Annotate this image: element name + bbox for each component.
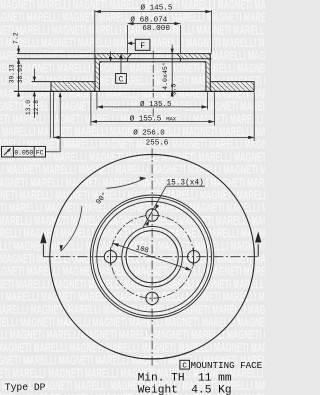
- svg-text:Ø 135.5: Ø 135.5: [140, 100, 172, 109]
- svg-text:39.13: 39.13: [8, 64, 15, 83]
- svg-text:Ø 145.5: Ø 145.5: [141, 3, 173, 12]
- svg-text:0.050: 0.050: [14, 149, 33, 156]
- svg-text:38.93: 38.93: [17, 64, 24, 83]
- svg-text:Ø 68.074: Ø 68.074: [130, 16, 167, 25]
- svg-text:12.8: 12.8: [33, 100, 40, 115]
- svg-text:C: C: [119, 76, 124, 85]
- svg-text:13.0: 13.0: [25, 100, 32, 115]
- svg-text:255.6: 255.6: [146, 140, 169, 148]
- svg-text:68.000: 68.000: [142, 25, 170, 33]
- svg-text:MAX: MAX: [166, 115, 177, 122]
- svg-text:Ø 256.0: Ø 256.0: [133, 129, 165, 138]
- svg-text:FC: FC: [36, 150, 44, 157]
- svg-text:3.5: 3.5: [171, 84, 178, 96]
- svg-text:7.2: 7.2: [13, 32, 20, 44]
- svg-text:Min. TH 11 mm: Min. TH 11 mm: [138, 373, 232, 385]
- svg-text:F: F: [140, 42, 145, 51]
- svg-text:MOUNTING FACE: MOUNTING FACE: [191, 360, 263, 371]
- svg-text:Weight 4.5 Kg: Weight 4.5 Kg: [138, 384, 232, 395]
- svg-text:C: C: [182, 363, 187, 371]
- svg-text:Ø 155.5: Ø 155.5: [130, 115, 162, 124]
- svg-text:4.0x45°: 4.0x45°: [161, 62, 169, 90]
- svg-text:Type DP: Type DP: [5, 382, 46, 393]
